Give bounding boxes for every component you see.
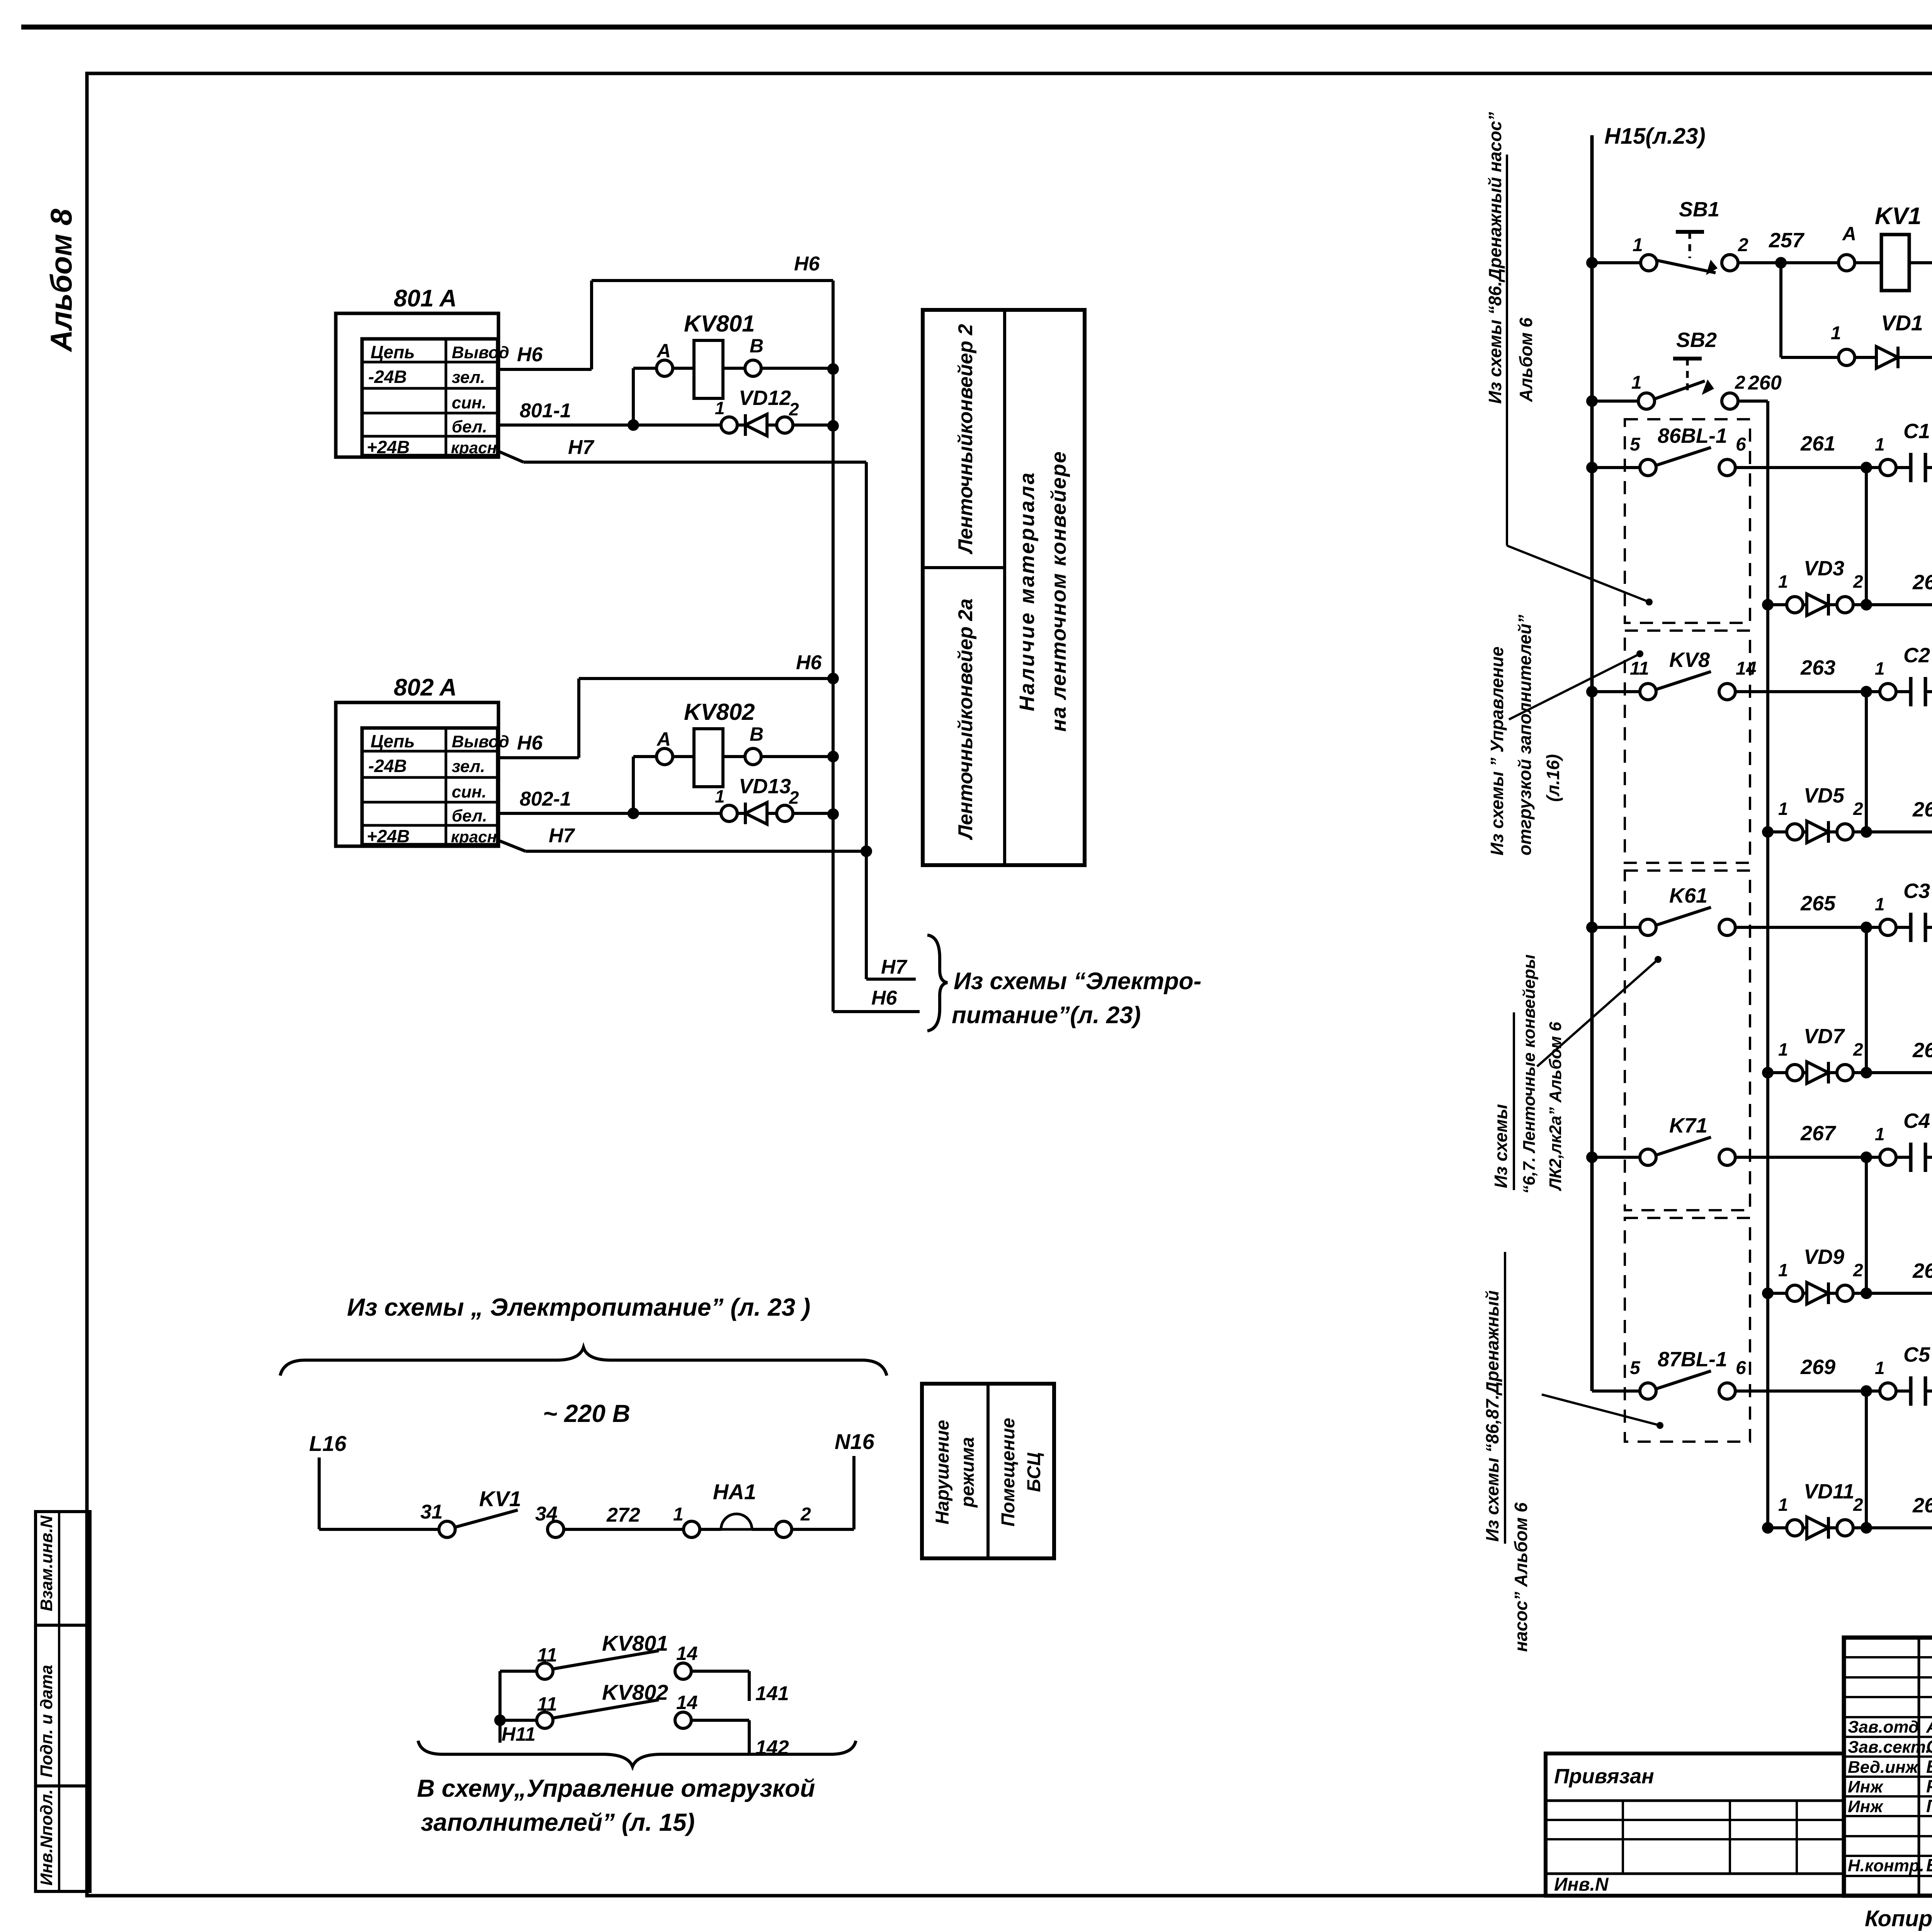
svg-text:KV8: KV8 xyxy=(1669,648,1710,672)
svg-text:Гарная: Гарная xyxy=(1926,1796,1932,1816)
svg-text:1: 1 xyxy=(1831,323,1841,344)
diode VD3 xyxy=(1762,557,1866,616)
svg-text:Наличие материала: Наличие материала xyxy=(1015,471,1039,711)
wire H11 branch xyxy=(494,1671,536,1743)
svg-text:VD7: VD7 xyxy=(1804,1025,1845,1048)
svg-text:H6: H6 xyxy=(871,987,898,1009)
note Из схемы 6,7 Ленточные конвейеры xyxy=(1491,954,1565,1194)
capacitor C5 xyxy=(1875,1343,1932,1406)
svg-text:H6: H6 xyxy=(517,344,543,366)
svg-text:Инж: Инж xyxy=(1848,1777,1884,1796)
svg-text:Из схемы ” Управление: Из схемы ” Управление xyxy=(1487,646,1507,855)
svg-text:заполнителей” (л. 15): заполнителей” (л. 15) xyxy=(421,1808,695,1836)
svg-text:Инв.N: Инв.N xyxy=(1554,1874,1609,1895)
svg-text:VD11: VD11 xyxy=(1804,1480,1854,1503)
contact K71 xyxy=(1640,1114,1735,1165)
button SB1 xyxy=(1633,198,1748,275)
svg-text:14: 14 xyxy=(676,1692,698,1713)
connector 802A xyxy=(336,674,509,846)
svg-text:C4: C4 xyxy=(1903,1109,1930,1133)
note В схему Управление отгрузкой xyxy=(417,1774,815,1836)
svg-text:263: 263 xyxy=(1912,798,1932,821)
svg-text:2: 2 xyxy=(1853,1260,1863,1280)
wire H7 vertical bus xyxy=(866,462,916,979)
wire rung 87BL-1 from H15 rail xyxy=(1592,1389,1639,1393)
svg-text:H6: H6 xyxy=(794,253,820,275)
wire H7 from 802A xyxy=(498,840,872,857)
svg-text:Из схемы “86.Дренажный насо: Из схемы “86.Дренажный насос” xyxy=(1485,112,1505,404)
svg-text:802-1: 802-1 xyxy=(520,788,571,810)
svg-text:БСЦ: БСЦ xyxy=(1024,1452,1044,1492)
svg-text:272: 272 xyxy=(606,1504,640,1526)
svg-text:1: 1 xyxy=(1875,1124,1885,1144)
svg-text:1: 1 xyxy=(715,786,725,806)
wire 267 segment xyxy=(1736,1156,1879,1159)
svg-text:H15(л.23): H15(л.23) xyxy=(1604,124,1706,149)
wire B to H6 bus xyxy=(762,363,839,375)
svg-text:1: 1 xyxy=(1778,571,1788,592)
net label 269 main xyxy=(1800,1355,1835,1379)
capacitor C2 xyxy=(1875,644,1932,706)
svg-text:269: 269 xyxy=(1912,1494,1932,1517)
svg-text:H7: H7 xyxy=(881,956,908,978)
svg-text:бел.: бел. xyxy=(452,417,487,436)
contact 87BL-1 xyxy=(1630,1348,1746,1399)
svg-text:Н.контр.: Н.контр. xyxy=(1848,1856,1924,1875)
svg-text:31: 31 xyxy=(420,1501,443,1523)
svg-text:14: 14 xyxy=(676,1643,698,1664)
svg-text:A: A xyxy=(656,728,671,750)
note Из схемы 86.Дренажный насос xyxy=(1485,112,1536,546)
wire KV802 branch xyxy=(628,757,656,819)
dashed boundary box 4 xyxy=(1625,1218,1750,1442)
wire KV801 branch xyxy=(628,368,656,431)
wire L16 drop xyxy=(319,1458,439,1529)
net label 263 main xyxy=(1800,656,1835,679)
box Ленточный конвейер 2 / 2а / Наличие материала xyxy=(923,310,1085,865)
svg-text:141: 141 xyxy=(755,1682,789,1705)
svg-text:Зав.отд: Зав.отд xyxy=(1848,1718,1919,1736)
svg-text:VD5: VD5 xyxy=(1804,784,1845,807)
svg-text:2: 2 xyxy=(1735,372,1745,393)
svg-text:6: 6 xyxy=(1736,1358,1746,1378)
svg-text:Боляева: Боляева xyxy=(1926,1757,1932,1777)
svg-text:A: A xyxy=(656,340,671,362)
wire 269 segment xyxy=(1736,1389,1879,1393)
contact B of KV801 xyxy=(745,335,764,376)
svg-text:Из схемы „ Электропитание” (л.: Из схемы „ Электропитание” (л. 23 ) xyxy=(347,1293,810,1321)
svg-text:801-1: 801-1 xyxy=(520,400,571,422)
wire H6 vertical bus xyxy=(833,281,920,1012)
svg-text:1: 1 xyxy=(715,398,725,418)
svg-text:263: 263 xyxy=(1800,656,1835,679)
svg-text:2: 2 xyxy=(1853,1039,1863,1060)
svg-text:1: 1 xyxy=(1875,1358,1885,1378)
svg-text:267: 267 xyxy=(1800,1122,1837,1145)
svg-text:H6: H6 xyxy=(517,732,543,754)
wire 142 stub xyxy=(692,1720,749,1755)
svg-text:~ 220 В: ~ 220 В xyxy=(543,1400,630,1427)
net label H7 exit xyxy=(881,956,908,978)
svg-text:Привязан: Привязан xyxy=(1554,1765,1654,1788)
svg-text:K61: K61 xyxy=(1669,884,1708,907)
svg-text:насос” Альбом 6: насос” Альбом 6 xyxy=(1511,1502,1531,1652)
net label 265 sub xyxy=(1912,1039,1932,1062)
left stamp boxes Взам.инв.N / Подп. и дата / Инв.N подл. xyxy=(36,1512,90,1891)
svg-text:267: 267 xyxy=(1912,1259,1932,1282)
svg-text:Зав.сект.: Зав.сект. xyxy=(1848,1738,1930,1757)
node label 257 xyxy=(1769,229,1805,252)
svg-text:KV1: KV1 xyxy=(1875,203,1922,230)
net label 261 sub xyxy=(1912,571,1932,594)
svg-text:отгрузкой заполнителей”: отгрузкой заполнителей” xyxy=(1515,615,1535,855)
svg-text:1: 1 xyxy=(673,1504,684,1525)
wire SB2 rung xyxy=(1586,395,1638,407)
svg-text:11: 11 xyxy=(1630,658,1649,679)
svg-text:Цепь: Цепь xyxy=(371,731,415,751)
leader line to 87BL-1 box xyxy=(1542,1395,1663,1429)
wire 263 segment xyxy=(1736,690,1879,693)
net label H15(л.23) xyxy=(1604,124,1706,149)
wire H6 from 801A xyxy=(498,281,833,369)
brace to Электропитание xyxy=(927,935,947,1031)
svg-text:KV802: KV802 xyxy=(602,1680,668,1704)
svg-text:красн.: красн. xyxy=(451,439,502,457)
contact 86BL-1 xyxy=(1630,424,1746,476)
net label H6 exit xyxy=(871,987,898,1009)
rail H15 (л.23) xyxy=(1590,135,1594,1391)
svg-text:Подп. и дата: Подп. и дата xyxy=(37,1665,56,1777)
svg-text:KV801: KV801 xyxy=(684,311,755,337)
title block signature rows xyxy=(1848,1716,1932,1875)
net label L16 xyxy=(309,1431,347,1456)
leader line to K61 box xyxy=(1537,956,1662,1066)
svg-text:2: 2 xyxy=(1853,1495,1863,1515)
svg-text:Взам.инв.N: Взам.инв.N xyxy=(37,1515,56,1611)
svg-text:34: 34 xyxy=(535,1503,558,1525)
relay coil KV801 xyxy=(673,311,755,398)
svg-text:C2: C2 xyxy=(1903,644,1930,667)
wire B KV802 to H6 bus xyxy=(762,751,839,762)
svg-text:C1: C1 xyxy=(1903,420,1930,443)
wire capacitor branch 261 xyxy=(1861,462,1872,611)
svg-text:HA1: HA1 xyxy=(713,1480,756,1504)
svg-text:KV1: KV1 xyxy=(479,1486,521,1511)
net label 141 xyxy=(755,1682,789,1705)
wire capacitor branch 269 xyxy=(1861,1385,1872,1534)
capacitor C3 xyxy=(1875,879,1932,942)
net label 802-1 xyxy=(520,788,571,810)
wire sub row 263 xyxy=(1866,826,1932,838)
svg-text:A: A xyxy=(1842,223,1856,245)
sheet top border line xyxy=(21,25,1932,30)
svg-text:5: 5 xyxy=(1630,434,1641,455)
svg-text:VD9: VD9 xyxy=(1804,1245,1844,1269)
svg-text:SB1: SB1 xyxy=(1679,198,1719,221)
svg-text:265: 265 xyxy=(1800,892,1836,915)
svg-text:B: B xyxy=(750,335,764,357)
svg-text:-24В: -24В xyxy=(368,367,407,387)
svg-text:Вывод: Вывод xyxy=(452,732,509,751)
diode VD1 xyxy=(1781,311,1932,368)
attachment table Привязан xyxy=(1546,1753,1844,1896)
svg-text:VD3: VD3 xyxy=(1804,557,1844,580)
svg-text:801 A: 801 A xyxy=(394,285,457,312)
svg-text:6: 6 xyxy=(1736,434,1746,455)
brace over 220V circuit xyxy=(280,1347,887,1376)
svg-text:син.: син. xyxy=(452,782,486,801)
svg-text:2: 2 xyxy=(789,787,799,808)
wire sub row 265 xyxy=(1866,1067,1932,1078)
acknowledge bus vertical xyxy=(1766,605,1769,1528)
svg-text:Копировал Денисюк: Копировал Денисюк xyxy=(1865,1906,1932,1931)
net label H11 xyxy=(502,1723,536,1745)
svg-text:B: B xyxy=(750,723,764,745)
svg-text:Из схемы: Из схемы xyxy=(1491,1104,1511,1188)
label ~220 В xyxy=(543,1400,630,1427)
svg-text:+24В: +24В xyxy=(367,826,410,846)
wire N16 drop xyxy=(792,1456,854,1529)
svg-text:87BL-1: 87BL-1 xyxy=(1658,1348,1727,1371)
svg-text:1: 1 xyxy=(1631,372,1642,393)
wire rung1 left xyxy=(1586,257,1640,269)
svg-text:зел.: зел. xyxy=(452,368,485,387)
bell HA1 xyxy=(673,1480,811,1537)
svg-text:L16: L16 xyxy=(309,1431,347,1456)
wire rung K61 from H15 rail xyxy=(1586,922,1639,933)
wire rung KV8 from H15 rail xyxy=(1586,686,1639,697)
svg-text:Из схемы “86,87.Дренажный: Из схемы “86,87.Дренажный xyxy=(1482,1290,1502,1542)
net label 269 sub xyxy=(1912,1494,1932,1517)
svg-text:Инв.Nподл.: Инв.Nподл. xyxy=(37,1789,56,1886)
svg-text:2: 2 xyxy=(789,399,799,419)
svg-text:1: 1 xyxy=(1778,1260,1788,1280)
svg-text:C5: C5 xyxy=(1903,1343,1930,1366)
wire VD1 branch verticals xyxy=(1781,263,1932,357)
svg-text:Из схемы “Электро-: Из схемы “Электро- xyxy=(954,968,1201,995)
svg-text:ЛК2,лк2а” Альбом 6: ЛК2,лк2а” Альбом 6 xyxy=(1546,1022,1565,1191)
footer Копировал Денисюк xyxy=(1865,1906,1932,1931)
svg-text:VD12: VD12 xyxy=(739,386,791,410)
svg-text:261: 261 xyxy=(1800,432,1835,455)
diode VD5 xyxy=(1762,784,1866,843)
svg-text:H7: H7 xyxy=(549,825,575,847)
svg-text:KV801: KV801 xyxy=(602,1631,668,1655)
wire 261 segment xyxy=(1736,466,1879,469)
svg-text:режима: режима xyxy=(957,1437,978,1508)
svg-text:2: 2 xyxy=(1853,571,1863,592)
svg-text:Помещение: Помещение xyxy=(998,1418,1019,1526)
svg-text:Альбом 8: Альбом 8 xyxy=(44,209,78,352)
wire capacitor branch 263 xyxy=(1861,686,1872,838)
svg-text:1: 1 xyxy=(1875,658,1885,679)
net label N16 xyxy=(835,1429,875,1454)
svg-text:VD1: VD1 xyxy=(1881,311,1923,335)
wire sub row 261 xyxy=(1866,599,1932,611)
svg-text:261: 261 xyxy=(1912,571,1932,594)
wire capacitor branch 265 xyxy=(1861,922,1872,1078)
connector 801A xyxy=(336,285,509,457)
svg-text:2: 2 xyxy=(1853,799,1863,819)
svg-text:K71: K71 xyxy=(1669,1114,1708,1137)
svg-text:+24В: +24В xyxy=(367,437,410,457)
diode VD12 xyxy=(715,386,799,436)
svg-text:Вывод: Вывод xyxy=(452,343,509,362)
contact A of KV801 xyxy=(656,340,673,376)
wire sub row 267 xyxy=(1866,1287,1932,1299)
svg-text:питание”(л. 23): питание”(л. 23) xyxy=(952,1002,1141,1029)
net label 261 main xyxy=(1800,432,1835,455)
wire rung 86BL-1 from H15 rail xyxy=(1586,462,1639,473)
wire rung1 to node 257 xyxy=(1738,257,1838,269)
svg-text:Рыбалка: Рыбалка xyxy=(1926,1776,1932,1796)
diode VD13 xyxy=(715,775,799,824)
svg-text:красн.: красн. xyxy=(451,828,502,846)
leader line to KV8 box xyxy=(1509,650,1643,719)
svg-text:11: 11 xyxy=(537,1644,557,1666)
svg-text:Боляева: Боляева xyxy=(1926,1855,1932,1875)
diode VD7 xyxy=(1762,1025,1866,1083)
wire rung K71 from H15 rail xyxy=(1586,1151,1639,1163)
wire VD13 to H6 bus xyxy=(793,808,839,820)
wire 265 segment xyxy=(1736,926,1879,929)
net label H6 above 802A wire xyxy=(796,651,822,674)
net label H7 at 802A xyxy=(549,825,575,847)
net label 142 xyxy=(755,1736,789,1759)
svg-text:Ленточныйконвейер 2а: Ленточныйконвейер 2а xyxy=(954,599,977,840)
svg-text:1: 1 xyxy=(1778,799,1788,819)
svg-text:86BL-1: 86BL-1 xyxy=(1658,424,1727,447)
net label 801-1 xyxy=(520,400,571,422)
dashed boundary box 3 xyxy=(1625,871,1750,1210)
net label 260 xyxy=(1748,372,1782,394)
svg-text:14: 14 xyxy=(1736,658,1756,679)
svg-text:1: 1 xyxy=(1633,235,1643,255)
relay coil KV802 xyxy=(673,699,755,787)
wire H7 from 801A xyxy=(498,451,866,462)
contact KV1 31-34 xyxy=(420,1486,683,1537)
contact KV801 11-14 xyxy=(537,1631,698,1679)
net label H7 at 801A xyxy=(568,436,595,459)
diode VD9 xyxy=(1762,1245,1866,1304)
svg-text:5: 5 xyxy=(1630,1358,1641,1378)
svg-text:2: 2 xyxy=(1738,235,1748,255)
wire 801-1 row xyxy=(498,423,721,427)
contact KV802 11-14 xyxy=(537,1680,698,1728)
svg-text:265: 265 xyxy=(1912,1039,1932,1062)
svg-text:Цепь: Цепь xyxy=(371,342,415,362)
diode VD11 xyxy=(1762,1480,1866,1539)
svg-text:1: 1 xyxy=(1875,894,1885,914)
contact A of KV1 xyxy=(1838,223,1856,271)
svg-text:802 A: 802 A xyxy=(394,674,457,701)
svg-text:VD13: VD13 xyxy=(739,775,791,798)
svg-text:C3: C3 xyxy=(1903,879,1930,903)
contact A of KV802 xyxy=(656,728,673,765)
capacitor C1 xyxy=(1875,420,1932,482)
svg-text:Самохин: Самохин xyxy=(1926,1736,1932,1757)
net label 267 main xyxy=(1800,1122,1837,1145)
contact KV8 xyxy=(1630,648,1756,700)
title block grid xyxy=(1844,1638,1932,1896)
svg-text:Нарушение: Нарушение xyxy=(932,1420,953,1525)
relay coil KV1 xyxy=(1855,203,1932,291)
svg-text:“6,7. Ленточные конвейеры: “6,7. Ленточные конвейеры xyxy=(1520,954,1539,1194)
svg-text:KV802: KV802 xyxy=(684,699,755,725)
wire capacitor branch 267 xyxy=(1861,1151,1872,1299)
net label H6 top xyxy=(794,253,820,275)
svg-text:1: 1 xyxy=(1875,434,1885,454)
svg-text:Вед.инж: Вед.инж xyxy=(1848,1758,1919,1777)
note Из схемы Электропитание (л.23) xyxy=(952,968,1201,1029)
note Из схемы Управление отгрузкой заполнителей xyxy=(1487,615,1563,855)
svg-text:зел.: зел. xyxy=(452,757,485,776)
svg-text:Английский: Английский xyxy=(1926,1716,1932,1736)
button SB2 xyxy=(1631,328,1745,409)
box Нарушение режима / Помещение БСЦ xyxy=(922,1384,1054,1558)
wire 260 to bus xyxy=(1738,401,1768,605)
contact B of KV802 xyxy=(745,723,764,765)
wire 141 stub xyxy=(692,1671,749,1701)
net label 263 sub xyxy=(1912,798,1932,821)
svg-text:Ленточныйконвейер 2: Ленточныйконвейер 2 xyxy=(954,324,977,554)
contact K61 xyxy=(1640,884,1735,935)
svg-text:Альбом 6: Альбом 6 xyxy=(1516,317,1536,402)
album label Альбом 8 xyxy=(44,209,78,352)
svg-text:SB2: SB2 xyxy=(1676,328,1717,352)
svg-text:257: 257 xyxy=(1769,229,1805,252)
leader line to 86BL-1 box xyxy=(1507,546,1653,605)
capacitor C4 xyxy=(1875,1109,1932,1172)
svg-text:260: 260 xyxy=(1748,372,1782,394)
wire sub row 269 xyxy=(1866,1522,1932,1534)
svg-text:1: 1 xyxy=(1778,1495,1788,1515)
svg-text:(л.16): (л.16) xyxy=(1543,754,1563,802)
svg-text:H11: H11 xyxy=(502,1723,536,1745)
net label 265 main xyxy=(1800,892,1836,915)
svg-text:269: 269 xyxy=(1800,1355,1835,1379)
svg-text:11: 11 xyxy=(537,1693,557,1715)
note Из схемы 86,87 Дренажный насос xyxy=(1482,1252,1531,1652)
svg-text:син.: син. xyxy=(452,393,486,412)
svg-text:бел.: бел. xyxy=(452,806,487,825)
net label 267 sub xyxy=(1912,1259,1932,1282)
svg-text:H7: H7 xyxy=(568,436,595,459)
svg-text:H6: H6 xyxy=(796,651,822,674)
dashed boundary box 1 xyxy=(1625,419,1750,623)
svg-text:на ленточном конвейере: на ленточном конвейере xyxy=(1047,451,1070,731)
svg-text:В схему„Управление отгрузкой: В схему„Управление отгрузкой xyxy=(417,1774,815,1802)
svg-text:Инж: Инж xyxy=(1848,1797,1884,1816)
svg-text:N16: N16 xyxy=(835,1429,875,1454)
wire H6 from 802A xyxy=(498,673,839,758)
brace under KV801 contacts xyxy=(418,1741,856,1767)
wire VD12 to H6 bus xyxy=(793,420,839,432)
svg-text:2: 2 xyxy=(800,1504,811,1525)
note Из схемы Электропитание header xyxy=(347,1293,810,1321)
dashed boundary box 2 xyxy=(1625,631,1750,863)
svg-text:-24В: -24В xyxy=(368,756,407,776)
net label H6 at 802A xyxy=(517,732,543,754)
net label H6 at 801A xyxy=(517,344,543,366)
wire 802-1 row xyxy=(498,812,721,815)
svg-text:1: 1 xyxy=(1778,1039,1788,1060)
